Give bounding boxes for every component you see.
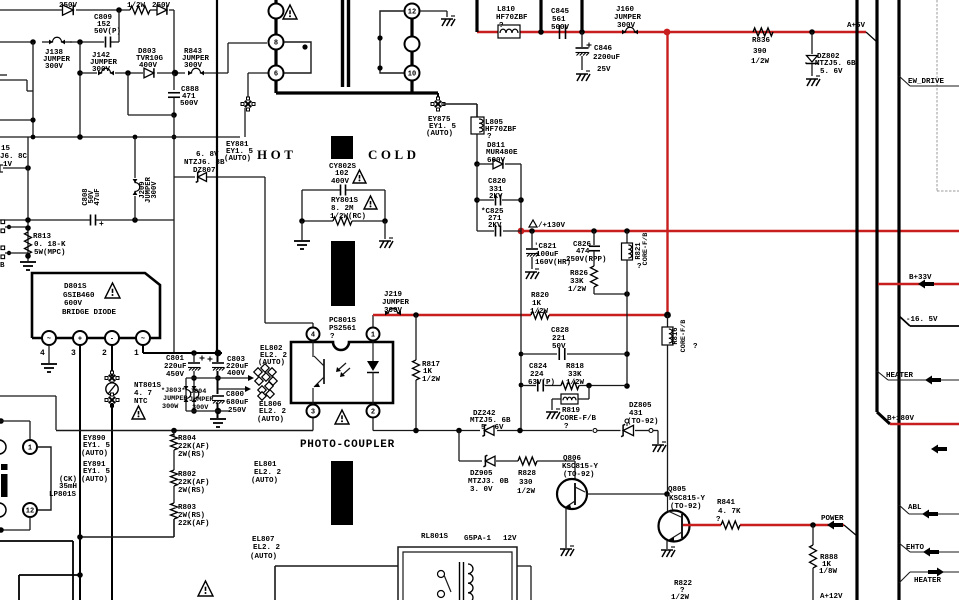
node dot (28,220)	[25, 217, 31, 223]
resistor R803	[171, 503, 178, 519]
label EL806 EL2.2 (AUTO)	[257, 401, 287, 424]
svg-text:DZ805: DZ805	[629, 402, 652, 410]
diode DZ807	[196, 172, 207, 183]
wire pin3 down	[312, 418, 314, 431]
node dot (302,221)	[299, 218, 305, 224]
svg-text:(TO-92): (TO-92)	[627, 418, 659, 426]
label CY802S 102 400V	[329, 163, 357, 186]
svg-text:C820: C820	[488, 178, 507, 186]
node dot (135,220)	[132, 217, 138, 223]
svg-text:J6. 8C: J6. 8C	[0, 153, 28, 161]
svg-text:NTZJ6. 8B: NTZJ6. 8B	[184, 159, 225, 167]
svg-text:(AUTO): (AUTO)	[250, 553, 277, 561]
wire R804-R802	[173, 450, 175, 470]
relay coil	[468, 564, 473, 600]
svg-text:BRIDGE DIODE: BRIDGE DIODE	[62, 309, 117, 317]
svg-text:R836: R836	[752, 37, 771, 45]
capacitor C809	[106, 37, 111, 48]
node dot (521,354)	[519, 352, 524, 357]
svg-text:561: 561	[552, 16, 566, 24]
svg-text:HOT: HOT	[257, 147, 296, 162]
wire x627 top	[626, 231, 628, 243]
svg-text:KSC815-Y: KSC815-Y	[562, 463, 599, 471]
svg-text:JUMPER: JUMPER	[163, 395, 188, 403]
svg-text:8: 8	[274, 40, 278, 48]
resistor RY801S	[333, 217, 352, 225]
label COLD	[368, 147, 420, 162]
svg-text:-: -	[110, 336, 114, 344]
warning triangle CY802S	[353, 170, 366, 183]
transistor Q806	[557, 479, 587, 509]
svg-text:2: 2	[371, 409, 375, 417]
bus wire x217	[216, 0, 218, 353]
svg-text:33K: 33K	[568, 371, 582, 379]
svg-text:?: ?	[637, 263, 642, 271]
label R843 JUMPER 300V	[182, 48, 210, 70]
photo-coupler PC801S box	[291, 342, 393, 403]
svg-text:MTZJ5. 6B: MTZJ5. 6B	[815, 60, 856, 68]
partial circle pin left bottom	[0, 503, 6, 517]
capacitor C828	[521, 348, 627, 360]
svg-text:HEATER: HEATER	[914, 577, 942, 585]
svg-text:DZ905: DZ905	[470, 470, 493, 478]
svg-text:1: 1	[371, 332, 375, 340]
node dot (416,315)	[413, 312, 419, 318]
jumper R843	[188, 68, 204, 75]
svg-text:EL2. 2: EL2. 2	[254, 469, 282, 477]
label R828 330 1/2W	[517, 470, 537, 496]
wire y120 stub	[0, 119, 33, 121]
varistor Z801	[106, 383, 118, 395]
svg-text:~: ~	[141, 336, 145, 344]
svg-text:(AUTO): (AUTO)	[81, 476, 108, 484]
wire left stub y75	[0, 74, 7, 76]
core-bead R819	[561, 394, 578, 404]
wire x477 down	[476, 164, 478, 231]
node dot (174,431)	[171, 428, 177, 434]
wire Q806 emitter	[565, 508, 567, 548]
label C821 100uF 160V(HR)	[534, 243, 571, 267]
node dot (594,231)	[591, 228, 597, 234]
wire pin6 to pad	[248, 73, 268, 99]
wire pin12 to ground	[420, 11, 447, 17]
label J160 JUMPER 300V	[614, 6, 642, 30]
rotated label R821 CORE-F/B ?	[635, 233, 650, 271]
svg-text:300V: 300V	[617, 22, 636, 30]
svg-text:5W(MPC): 5W(MPC)	[34, 249, 66, 257]
svg-text:R819: R819	[562, 407, 581, 415]
rotated label J209 JUMPER 300V	[139, 176, 159, 203]
wire DZ805 right	[635, 431, 658, 445]
wire y73	[80, 72, 228, 74]
wire y177 DZ807	[174, 176, 265, 178]
wire x174 down	[173, 115, 175, 220]
svg-text:300W: 300W	[162, 403, 179, 411]
label PC801S PS2561 ?	[329, 317, 357, 341]
node dot (385,221)	[382, 218, 388, 224]
svg-text:15: 15	[1, 145, 11, 153]
wire red B+ rail y315	[373, 314, 668, 316]
svg-text:35mH: 35mH	[59, 483, 77, 491]
svg-text:/+130V: /+130V	[538, 222, 566, 230]
node dot (459,430)	[456, 428, 462, 434]
label Q805 KSC815-Y (TO-92)	[668, 486, 706, 511]
winding bracket right	[380, 11, 404, 73]
node dot (1,421)	[0, 418, 4, 424]
resistor R841	[721, 521, 740, 529]
label C828 221 50V	[551, 327, 570, 351]
svg-text:1/2W(RC): 1/2W(RC)	[330, 213, 366, 221]
svg-text:2KV: 2KV	[488, 222, 502, 230]
svg-text:12V: 12V	[503, 535, 517, 543]
node dot (627,231)	[624, 228, 630, 234]
svg-text:R820: R820	[531, 292, 550, 300]
warning triangle PC801S	[335, 410, 349, 424]
label C824 224 63V(P)	[528, 363, 555, 387]
warning triangle D801S	[105, 283, 120, 298]
svg-text:221: 221	[552, 335, 566, 343]
net stub POWER	[844, 525, 857, 536]
svg-text:25V: 25V	[597, 66, 611, 74]
ground R819	[546, 409, 560, 419]
label C801 220uF 450V	[164, 355, 187, 379]
wire pin2 down	[372, 418, 374, 431]
pin circle 1 LP801S	[23, 440, 37, 454]
label L805 HF70ZBF ?	[485, 119, 517, 141]
svg-text:C828: C828	[551, 327, 570, 335]
net EW_DRIVE	[899, 76, 959, 86]
wire y378 to arrow	[186, 375, 254, 381]
capacitor C820	[477, 195, 521, 206]
wire x265 drop to PC801 pin4	[265, 177, 313, 327]
svg-text:2: 2	[102, 349, 107, 358]
svg-text:J804: J804	[190, 388, 206, 396]
lead circle DZ805 left	[593, 429, 597, 433]
bus stub x541	[539, 0, 542, 32]
svg-text:63V(P): 63V(P)	[528, 379, 555, 387]
wire y389 to arrow	[218, 386, 251, 392]
jumper J209	[133, 137, 140, 220]
label B	[0, 262, 5, 270]
svg-text:PHOTO-COUPLER: PHOTO-COUPLER	[300, 439, 395, 451]
node dot (477,164)	[474, 161, 480, 167]
svg-text:J219: J219	[384, 291, 403, 299]
svg-text:C800: C800	[226, 391, 245, 399]
wire R828 to Q806	[537, 461, 575, 480]
resistor R836	[753, 26, 773, 38]
svg-text:NT801S: NT801S	[134, 382, 162, 390]
wire C888 loop	[128, 73, 174, 115]
label C820 331 2KV	[488, 178, 507, 201]
capacitor CY802S symbol	[341, 185, 346, 196]
svg-text:680uF: 680uF	[226, 399, 249, 407]
node dot (28,228)	[25, 225, 31, 231]
svg-text:8. 2M: 8. 2M	[331, 205, 354, 213]
jumper J142	[98, 68, 114, 75]
pad stub left edge	[0, 165, 28, 172]
diamond cluster EL80x	[254, 364, 277, 400]
svg-text:MTZJ3. 0B: MTZJ3. 0B	[468, 478, 509, 486]
label EL802 EL2.2 (AUTO)	[258, 345, 288, 367]
svg-text:C801: C801	[166, 355, 185, 363]
svg-text:+: +	[78, 336, 82, 344]
svg-text:D801S: D801S	[64, 283, 87, 291]
svg-text:*J803*: *J803*	[161, 387, 185, 395]
label EL801 EL2.2 (AUTO)	[251, 461, 282, 485]
node dot (128,73)	[125, 70, 131, 76]
ground Q805	[661, 547, 675, 557]
label (CK) 35mH LP801S	[49, 476, 77, 499]
transformer core	[343, 0, 349, 87]
svg-text:250V: 250V	[59, 2, 78, 10]
label A+5V	[847, 22, 866, 30]
node dot (1,530)	[0, 527, 4, 533]
arrow POWER	[827, 521, 843, 530]
wire R819 to ground	[552, 399, 561, 410]
net B+33V	[878, 274, 959, 289]
svg-text:1/2W: 1/2W	[530, 308, 549, 316]
svg-text:Q805: Q805	[668, 486, 687, 494]
pad squares R813 bottom	[1, 246, 28, 259]
node dot (28,256)	[25, 253, 31, 259]
svg-text:?: ?	[564, 423, 569, 431]
svg-text:300V: 300V	[151, 181, 159, 199]
varistor pad bottom	[105, 393, 119, 407]
svg-text:6: 6	[274, 71, 278, 79]
svg-text:'C821: 'C821	[534, 243, 557, 251]
relay contact	[438, 571, 452, 598]
capacitor C821	[526, 231, 539, 269]
bus line x857	[855, 0, 858, 600]
barrier block low	[331, 461, 353, 525]
bus line x877	[875, 0, 878, 412]
svg-text:300V: 300V	[184, 62, 203, 70]
svg-text:500V: 500V	[180, 100, 199, 108]
label D803 TVR10G 400V	[136, 48, 164, 70]
svg-text:CORE-F/B: CORE-F/B	[642, 233, 650, 266]
svg-text:102: 102	[335, 170, 349, 178]
node dot (627,386)	[624, 383, 630, 389]
ground R813	[20, 262, 36, 270]
node dot (813,525)	[810, 522, 816, 528]
node dot (627,294)	[624, 291, 630, 297]
capacitor C800	[212, 396, 225, 418]
test pad EY881	[241, 97, 255, 111]
label 250V (diode)	[59, 2, 78, 10]
label R804 22K(AF) 2W(RS)	[178, 435, 210, 459]
wire R804 chain top	[173, 431, 175, 437]
svg-text:B+180V: B+180V	[887, 415, 915, 423]
wire y430 hot side	[56, 430, 313, 432]
wire red POWER	[683, 524, 844, 526]
svg-text:EL807: EL807	[252, 536, 275, 544]
rotated label C808 50V 47uF	[82, 188, 102, 205]
node dot (521,200)	[518, 197, 524, 203]
pin circle 2 PC801S	[367, 405, 380, 418]
pad squares R813 top	[1, 220, 28, 233]
bridge pin circle 1	[136, 331, 150, 345]
svg-text:1/8W: 1/8W	[819, 568, 838, 576]
barrier block CY802S	[331, 136, 353, 159]
page divider gray	[937, 0, 959, 191]
svg-text:EY1. 5: EY1. 5	[83, 442, 111, 450]
ground DZ802	[806, 76, 820, 86]
svg-text:600V: 600V	[487, 157, 506, 165]
wire y541 box	[0, 541, 73, 600]
label L810 HF70ZBF ?	[496, 6, 528, 30]
svg-text:+: +	[99, 220, 104, 229]
wire y42 left	[0, 41, 119, 43]
transformer right pin stem	[410, 4, 413, 93]
svg-text:JUMPER: JUMPER	[614, 14, 642, 22]
svg-text:R826: R826	[570, 270, 589, 278]
svg-text:MUR480E: MUR480E	[486, 149, 518, 157]
wire to R828	[496, 460, 518, 462]
label R888 1K 1/8W	[819, 554, 839, 576]
ground C846	[576, 71, 590, 81]
node dot (174,115)	[171, 112, 177, 118]
ground pin12	[441, 16, 455, 26]
node dot (135,137)	[133, 135, 138, 140]
ground C800	[210, 419, 226, 427]
svg-text:2W(RS): 2W(RS)	[178, 487, 205, 495]
svg-text:10: 10	[408, 71, 416, 79]
svg-text:R818: R818	[566, 363, 585, 371]
phase dot right bottom	[377, 65, 382, 70]
wire red top rail	[477, 31, 866, 33]
label R818 33K 1/2W	[566, 363, 585, 387]
label J219 JUMPER 300V	[382, 291, 410, 315]
node dot red corner (668,315)	[664, 312, 671, 319]
lead circle DZ805 right	[649, 429, 653, 433]
wire y137 main	[0, 136, 240, 138]
node dot A1	[116, 7, 122, 13]
node dot (33,120)	[30, 117, 35, 122]
LED internal	[367, 341, 379, 404]
label EY891 EY1.5 (AUTO)	[81, 461, 111, 484]
bold glyph i	[1, 464, 8, 497]
svg-text:?: ?	[487, 133, 492, 141]
svg-text:?: ?	[330, 333, 335, 341]
label pin numbers 4 3 2 1	[40, 349, 139, 358]
svg-text:R813: R813	[33, 233, 52, 241]
svg-text:(AUTO): (AUTO)	[257, 416, 284, 424]
svg-text:?: ?	[716, 516, 721, 524]
label C826 474 250V(RPP)	[566, 241, 607, 264]
svg-text:12: 12	[26, 508, 34, 516]
svg-text:(AUTO): (AUTO)	[426, 130, 453, 138]
winding bracket left	[284, 42, 311, 73]
svg-text:G5PA-1: G5PA-1	[464, 535, 492, 543]
wire y430 cold side	[373, 430, 592, 432]
bus stub x477	[475, 0, 478, 32]
svg-text:C846: C846	[594, 45, 613, 53]
svg-text:2W(RS): 2W(RS)	[178, 451, 205, 459]
wire R802-R803	[173, 486, 175, 503]
pin 6 circle	[269, 66, 284, 81]
pin circle 1 PC801S	[367, 328, 380, 341]
svg-text:2200uF: 2200uF	[593, 54, 621, 62]
svg-text:(AUTO): (AUTO)	[224, 155, 251, 163]
label HOT	[257, 147, 296, 162]
wire pad to L805	[443, 104, 477, 117]
svg-text:L810: L810	[497, 6, 516, 14]
warning triangle T801	[283, 5, 297, 19]
wire y220	[0, 219, 174, 221]
label 15	[1, 145, 11, 153]
svg-text:5. 6V: 5. 6V	[481, 424, 504, 432]
wire x186 drop	[185, 378, 187, 411]
wire corner to pin8	[228, 43, 267, 73]
relay RL801S outer box	[398, 547, 517, 600]
node dot (589,386)	[586, 383, 592, 389]
label A+12V	[820, 593, 843, 600]
svg-text:1/2W: 1/2W	[751, 58, 770, 66]
label DZ905 MTZJ3.0B 3.0V	[468, 470, 509, 494]
svg-text:474: 474	[576, 248, 590, 256]
pin 8 circle	[269, 35, 284, 50]
svg-text:600V: 600V	[64, 300, 83, 308]
label C809 152 50V(P)	[94, 14, 121, 36]
svg-text:450V: 450V	[166, 371, 185, 379]
svg-text:~: ~	[47, 336, 51, 344]
net HEATER upper	[877, 371, 959, 385]
rotated label R816 CORE-F/B ?	[672, 320, 698, 353]
pin circle blank right	[405, 37, 420, 52]
svg-text:R804: R804	[178, 435, 197, 443]
resistor R818	[561, 382, 579, 390]
label D811 MUR480E 600V	[486, 142, 518, 165]
node dot (33,137)	[31, 135, 36, 140]
svg-text:3. 0V: 3. 0V	[470, 486, 493, 494]
warning triangle RY801S	[364, 196, 377, 209]
capacitor C808	[91, 215, 105, 230]
ground RY801S left	[294, 221, 310, 249]
svg-text:ABL: ABL	[908, 504, 922, 512]
svg-text:KSC815-Y: KSC815-Y	[669, 495, 706, 503]
wire x119 up	[118, 10, 120, 42]
svg-text:250V: 250V	[228, 407, 247, 415]
jumper J219	[385, 308, 401, 315]
svg-text:6. 8V: 6. 8V	[196, 151, 219, 159]
wire varistor down	[111, 403, 113, 600]
test pad EY875	[431, 97, 445, 111]
bridge pin circle 3	[73, 331, 87, 345]
ground RY801S right	[379, 221, 393, 248]
node dot (218,353)	[215, 350, 222, 357]
wire x33 drop	[32, 42, 34, 137]
svg-text:22K(AF): 22K(AF)	[178, 520, 210, 528]
capacitor C825	[477, 226, 521, 237]
bridge pin circle 2	[105, 331, 119, 345]
svg-text:390: 390	[753, 48, 767, 56]
inductor L810	[498, 25, 520, 38]
svg-text:1/2W: 1/2W	[517, 488, 536, 496]
svg-text:1/2W: 1/2W	[568, 286, 587, 294]
label EY881 EY1.5 (AUTO)	[224, 141, 254, 163]
svg-text:330: 330	[519, 479, 533, 487]
svg-text:500V: 500V	[551, 24, 570, 32]
svg-text:HF70ZBF: HF70ZBF	[496, 14, 528, 22]
jumper J160	[622, 27, 638, 34]
svg-text:NTC: NTC	[134, 398, 148, 406]
wire x521 sense	[520, 231, 522, 430]
svg-text:R802: R802	[178, 471, 197, 479]
net label A/+130V	[529, 220, 566, 230]
wire Q805 emitter	[666, 541, 668, 549]
wire R817	[413, 315, 420, 431]
svg-text:2W(RS): 2W(RS)	[178, 512, 205, 520]
